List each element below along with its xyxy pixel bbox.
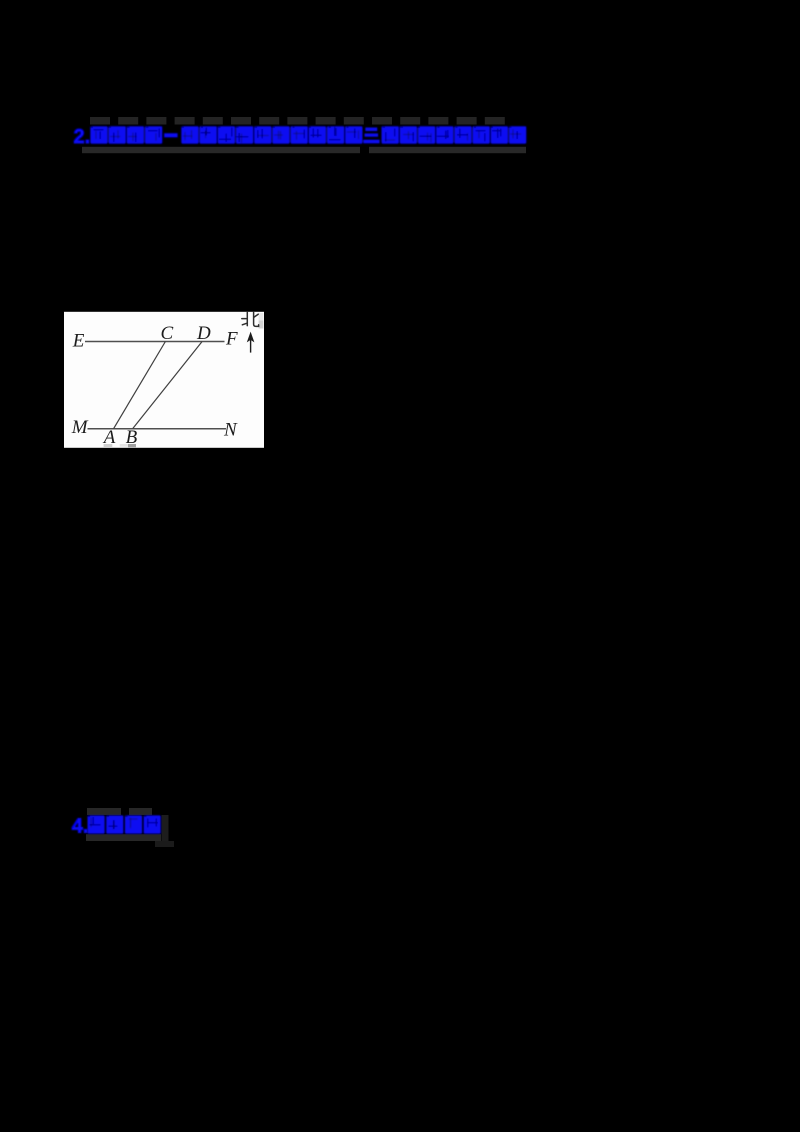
north arrow	[247, 332, 255, 353]
svg-text:C: C	[161, 323, 174, 344]
second heading blobs (Chinese)	[88, 815, 161, 833]
white figure panel	[64, 312, 264, 448]
svg-text:M: M	[71, 417, 89, 438]
svg-text:E: E	[72, 330, 85, 351]
second heading number 4.	[72, 816, 89, 838]
svg-text:2.: 2.	[74, 126, 91, 148]
heading text blobs (Chinese title)	[90, 126, 526, 144]
emphasis marks around second heading	[86, 808, 174, 847]
north character bei	[242, 312, 259, 326]
svg-text:D: D	[196, 323, 211, 344]
gray patch right of north label	[259, 313, 264, 329]
svg-text:F: F	[225, 329, 238, 350]
line AC (left slant)	[114, 342, 166, 429]
heading emphasis band bottom	[82, 147, 526, 153]
heading emphasis band top	[90, 117, 505, 125]
line EF (top horizontal)	[85, 341, 225, 343]
line MN (bottom horizontal)	[88, 428, 227, 430]
heading number 2.	[74, 126, 91, 148]
gray smudges below A and B	[104, 444, 136, 447]
svg-text:N: N	[223, 419, 238, 440]
svg-text:4.: 4.	[72, 816, 89, 838]
line BD (right slant)	[133, 342, 203, 429]
